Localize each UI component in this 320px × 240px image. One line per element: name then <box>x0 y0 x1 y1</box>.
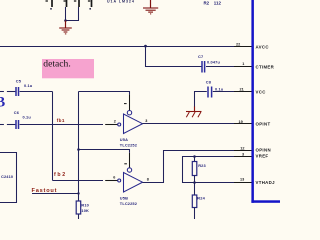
svg-text:22: 22 <box>236 43 240 47</box>
svg-text:R10: R10 <box>81 202 89 207</box>
junction on rail <box>144 45 147 48</box>
IC U? block left border <box>251 0 254 203</box>
wire U5A top pin loop <box>79 92 130 95</box>
junction <box>77 148 80 151</box>
wire fb1 chain to U5B input <box>53 180 104 182</box>
svg-text:TLC2252: TLC2252 <box>120 142 138 147</box>
svg-text:10K: 10K <box>81 208 89 213</box>
svg-text:13: 13 <box>240 178 244 182</box>
svg-text:3: 3 <box>145 119 147 123</box>
resistor R24 <box>192 183 205 220</box>
capacitor C6 <box>0 110 31 129</box>
svg-text:AVCC: AVCC <box>256 44 270 49</box>
svg-text:0.047u: 0.047u <box>207 60 220 65</box>
resistor R10 <box>76 201 89 219</box>
svg-text:2: 2 <box>114 119 116 123</box>
wire U5B top pin branch <box>79 150 130 153</box>
svg-text:U5B: U5B <box>120 195 128 200</box>
svg-text:12: 12 <box>240 146 244 150</box>
svg-text:VREF: VREF <box>256 154 269 159</box>
svg-text:R24: R24 <box>197 195 205 200</box>
wire vertical fb1 chain <box>52 92 54 181</box>
svg-text:R23: R23 <box>198 163 206 168</box>
svg-text:C2410: C2410 <box>1 174 13 179</box>
svg-text:detach.: detach. <box>43 59 70 70</box>
svg-text:1: 1 <box>242 62 244 66</box>
svg-text:8: 8 <box>147 178 149 182</box>
wire Fastout <box>32 193 79 195</box>
svg-text:3: 3 <box>242 152 244 156</box>
capacitor C5 <box>0 79 33 96</box>
earth ground (middle right) <box>186 107 202 118</box>
wire C2/C3 to ground <box>66 7 79 21</box>
wire C8 left to ground stub <box>195 92 207 108</box>
wire VREF row and divider loop <box>183 157 252 183</box>
junction VREF / divider <box>193 155 196 158</box>
svg-text:fb1: fb1 <box>57 118 65 123</box>
svg-text:fb2: fb2 <box>54 172 67 178</box>
svg-text:21: 21 <box>240 88 244 92</box>
capacitor C4 (cropped at top) <box>88 0 92 10</box>
svg-text:R2: R2 <box>204 1 210 6</box>
svg-text:0.1u: 0.1u <box>24 83 33 88</box>
svg-text:0.1u: 0.1u <box>215 86 224 91</box>
junction <box>77 192 79 194</box>
svg-text:C8: C8 <box>206 80 212 85</box>
svg-text:C5: C5 <box>16 79 22 84</box>
svg-text:TLC2252: TLC2252 <box>120 201 138 206</box>
op-amp U5B <box>105 153 149 206</box>
capacitor C2 (cropped at top) <box>64 0 67 7</box>
svg-text:CTIMER: CTIMER <box>256 65 275 70</box>
svg-text:0.1u: 0.1u <box>23 115 32 120</box>
IC block bottom edge <box>251 200 280 203</box>
svg-text:U5A: U5A <box>120 137 128 142</box>
svg-text:VTHADJ: VTHADJ <box>256 180 276 185</box>
wire C7 to CTIMER pin <box>206 66 252 68</box>
svg-text:C6: C6 <box>14 110 20 115</box>
wire C6 to U5A input <box>20 124 103 126</box>
svg-text:112: 112 <box>214 1 222 6</box>
svg-text:OPINN: OPINN <box>256 148 271 153</box>
wire C5 to feedback corner <box>20 91 53 93</box>
ground GND2 (top middle) <box>143 0 158 14</box>
wire rail to CTIMER row <box>146 47 202 67</box>
resistor R23 <box>192 157 206 183</box>
junction <box>64 19 67 22</box>
svg-text:6: 6 <box>113 175 115 179</box>
svg-text:B: B <box>0 95 6 111</box>
capacitor C8 <box>206 80 224 98</box>
capacitor C7 <box>198 54 220 72</box>
IC pin stubs (black) <box>234 46 252 48</box>
svg-text:C7: C7 <box>198 54 203 59</box>
wire vertical 2 (feedback bus) <box>78 92 80 202</box>
junction VTHADJ / divider <box>193 181 196 184</box>
svg-text:OPINT: OPINT <box>256 122 271 127</box>
svg-text:VCC: VCC <box>256 90 267 95</box>
wire U5B output up to OPINN pin <box>143 151 252 183</box>
svg-text:U1A LM324: U1A LM324 <box>107 0 135 4</box>
sensor box U? (bottom left, cropped) <box>0 153 17 203</box>
wire U5A output to OPINT pin <box>143 123 252 125</box>
wire AVCC rail <box>0 46 252 48</box>
capacitor C1 (cropped at top) <box>46 0 53 10</box>
capacitor C3 (cropped at top) <box>74 0 79 7</box>
ground GND1 (top left) <box>59 21 72 34</box>
note detach <box>42 59 94 79</box>
wire C8 right to VCC pin <box>213 91 252 93</box>
op-amp U5A <box>105 95 147 148</box>
